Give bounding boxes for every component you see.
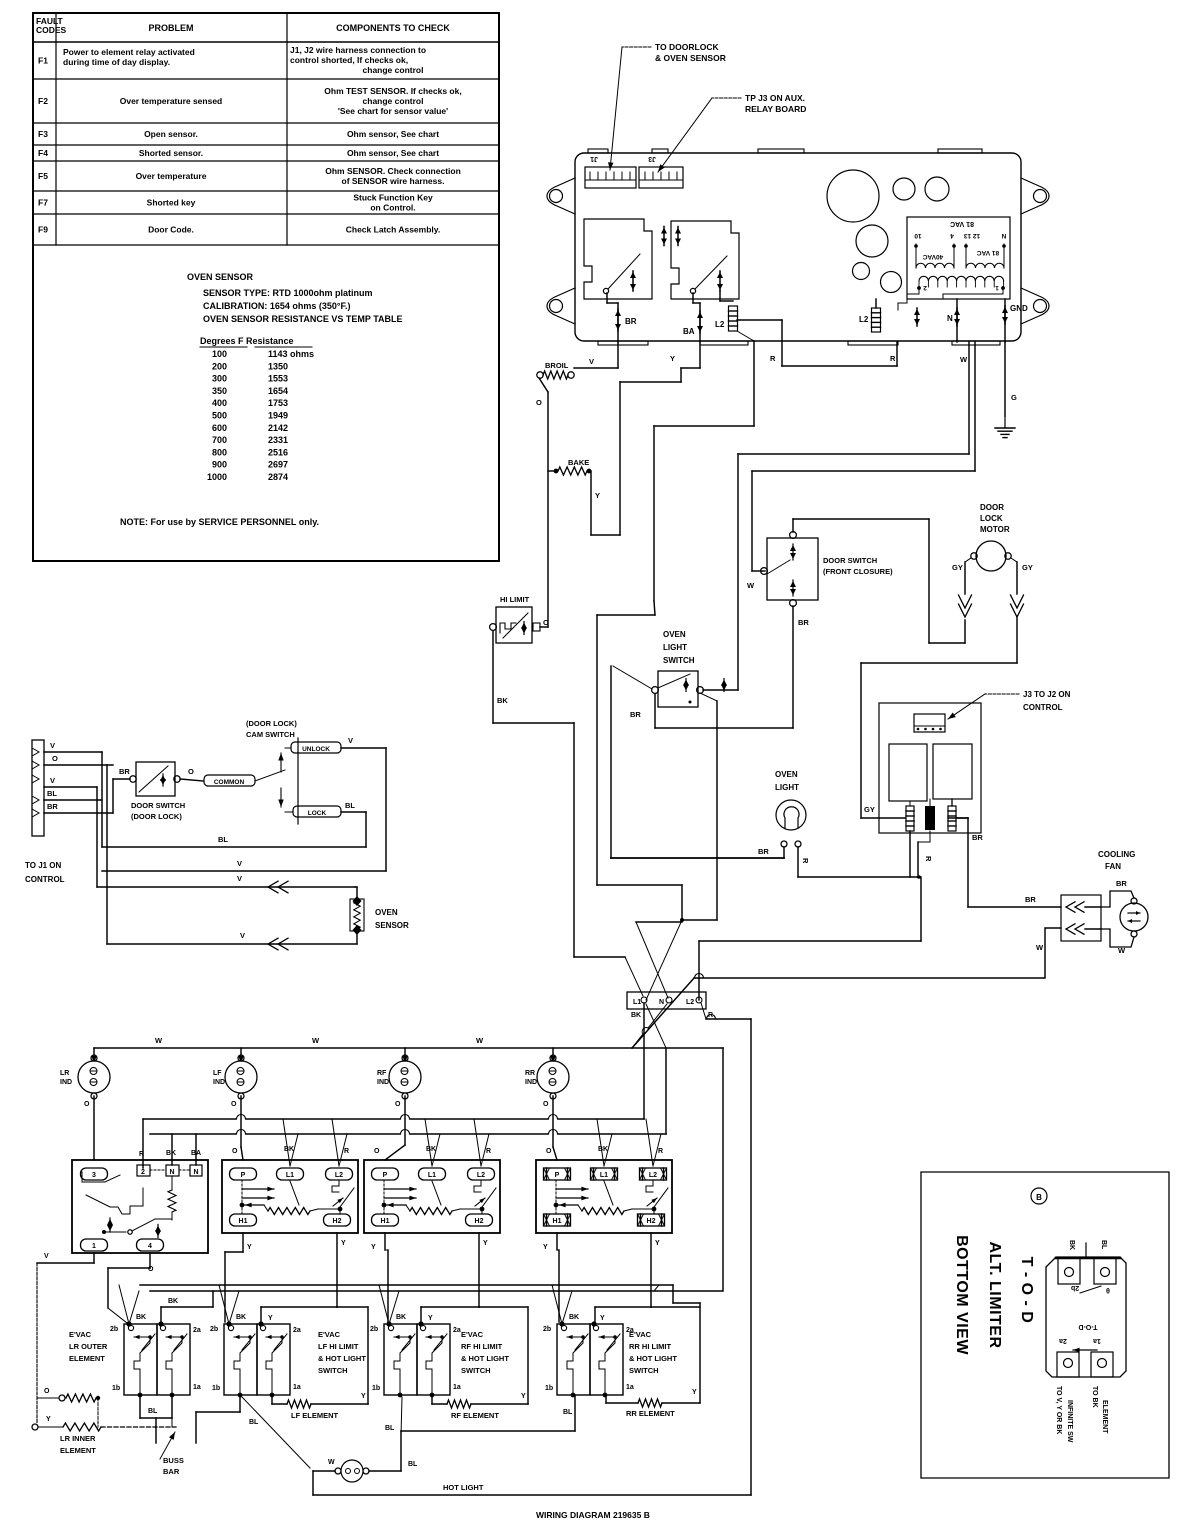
svg-text:G: G <box>1011 393 1017 402</box>
svg-text:V: V <box>348 736 353 745</box>
svg-text:& HOT LIGHT: & HOT LIGHT <box>318 1354 366 1363</box>
cooling fan connector <box>1061 895 1101 941</box>
svg-text:change control: change control <box>363 96 424 106</box>
svg-text:O: O <box>44 1388 50 1395</box>
switch internals: blade <box>482 1188 496 1207</box>
terminal 2b <box>226 1321 231 1326</box>
svg-text:L2: L2 <box>715 320 725 329</box>
2a bracket wires to elements <box>260 1307 262 1324</box>
svg-text:1949: 1949 <box>268 411 288 421</box>
svg-text:BAR: BAR <box>163 1467 180 1476</box>
aux board fuse right <box>951 799 953 806</box>
relay K1 on board <box>584 219 652 299</box>
svg-text:CONTROL: CONTROL <box>1023 703 1063 712</box>
svg-text:900: 900 <box>212 460 227 470</box>
terminal 2a <box>591 1321 596 1326</box>
aux board relay 1 <box>889 744 927 801</box>
svg-text:& HOT LIGHT: & HOT LIGHT <box>461 1354 509 1363</box>
svg-text:BK: BK <box>136 1314 146 1321</box>
svg-text:SWITCH: SWITCH <box>629 1366 659 1375</box>
circled B <box>1031 1188 1047 1204</box>
wire L2 to R drop <box>701 1003 706 1019</box>
svg-text:V: V <box>44 1253 49 1260</box>
cam switch COMMON terminal <box>204 775 255 786</box>
svg-text:H2: H2 <box>647 1218 656 1225</box>
terminal 1b <box>238 1393 243 1398</box>
svg-text:NOTE: For use by SERVICE PERS: NOTE: For use by SERVICE PERSONNEL only. <box>120 517 319 527</box>
control board mounting ear top-right <box>1021 178 1049 214</box>
svg-text:W: W <box>328 1459 335 1466</box>
switch internals: resistor <box>242 1204 264 1206</box>
svg-text:Y: Y <box>655 1240 660 1247</box>
svg-text:10: 10 <box>914 232 922 239</box>
svg-text:BA: BA <box>683 327 695 336</box>
LR outer element resistor <box>59 1395 65 1401</box>
svg-text:GY: GY <box>952 563 963 572</box>
switch cell internals <box>567 1336 583 1338</box>
svg-text:BAKE: BAKE <box>568 458 589 467</box>
svg-text:INFINITE SW: INFINITE SW <box>1066 1400 1073 1443</box>
wire L1 diagonal to rail B riser <box>646 1004 666 1048</box>
connector J1 on board <box>585 167 636 188</box>
HOT LIGHT lamp <box>341 1460 363 1482</box>
LR inner element resistor <box>32 1424 38 1430</box>
cam switch LOCK terminal <box>293 806 341 817</box>
rail B to element switches <box>150 1290 723 1292</box>
svg-text:BK: BK <box>497 696 508 705</box>
svg-text:R: R <box>658 1148 663 1155</box>
svg-text:L1: L1 <box>633 999 641 1006</box>
svg-text:RR: RR <box>525 1070 535 1077</box>
terminal 1a <box>603 1393 608 1398</box>
svg-text:ELEMENT: ELEMENT <box>1101 1400 1108 1434</box>
svg-text:F7: F7 <box>38 198 48 208</box>
switch cell internals <box>134 1336 150 1338</box>
svg-text:W: W <box>960 355 968 364</box>
svg-text:O: O <box>546 1148 552 1155</box>
relay K2 on board <box>671 221 739 299</box>
aux board fuse left <box>909 801 911 806</box>
svg-text:2a: 2a <box>193 1327 201 1334</box>
svg-text:OVEN: OVEN <box>375 908 398 917</box>
1b/1a BL jumpers <box>139 1395 141 1418</box>
LR switch bottom wires <box>93 1253 95 1263</box>
svg-text:GND: GND <box>1010 304 1028 313</box>
switch internals: L1 wiper line <box>290 1181 299 1205</box>
svg-text:Degrees F Resistance: Degrees F Resistance <box>200 336 294 346</box>
svg-text:1b: 1b <box>372 1385 380 1392</box>
terminal 2b <box>559 1321 564 1326</box>
svg-text:O: O <box>232 1148 238 1155</box>
svg-text:F5: F5 <box>38 171 48 181</box>
svg-text:BL: BL <box>249 1419 259 1426</box>
sub-board internal connection <box>898 288 919 310</box>
svg-text:control shorted, If checks ok,: control shorted, If checks ok, <box>290 55 408 65</box>
svg-text:Shorted key: Shorted key <box>147 198 196 208</box>
svg-text:L2: L2 <box>686 999 694 1006</box>
svg-text:Power to element relay activat: Power to element relay activated <box>63 47 195 57</box>
connector TO J1 ON CONTROL <box>32 740 44 836</box>
svg-text:BR: BR <box>1025 895 1036 904</box>
svg-text:300: 300 <box>212 374 227 384</box>
V-drop wires to L2 terminal <box>474 1119 481 1166</box>
svg-text:L2: L2 <box>649 1172 657 1179</box>
svg-text:BK: BK <box>598 1146 608 1153</box>
svg-text:(FRONT CLOSURE): (FRONT CLOSURE) <box>823 567 893 576</box>
svg-text:E'VAC: E'VAC <box>629 1330 652 1339</box>
svg-text:BL: BL <box>1100 1240 1107 1250</box>
svg-text:& OVEN SENSOR: & OVEN SENSOR <box>655 53 726 63</box>
svg-text:RF: RF <box>377 1070 387 1077</box>
svg-text:O: O <box>84 1101 90 1108</box>
svg-text:BK: BK <box>569 1314 579 1321</box>
motor right wire down to aux GY <box>1016 616 1018 663</box>
svg-text:P: P <box>383 1172 388 1179</box>
svg-text:T-O-D: T-O-D <box>1078 1323 1097 1330</box>
svg-text:N: N <box>169 1169 174 1176</box>
wire V from oven sensor bottom <box>107 943 357 945</box>
terminal 1b <box>571 1393 576 1398</box>
OVEN SENSOR resistor <box>353 896 362 906</box>
svg-text:ELEMENT: ELEMENT <box>69 1354 105 1363</box>
svg-text:Check Latch Assembly.: Check Latch Assembly. <box>346 225 440 235</box>
aux board right fuse wire BR to cooling fan <box>951 799 953 806</box>
svg-text:OVEN SENSOR RESISTANCE VS TEMP: OVEN SENSOR RESISTANCE VS TEMP TABLE <box>203 314 403 324</box>
svg-text:Y: Y <box>543 1244 548 1251</box>
svg-text:H2: H2 <box>333 1218 342 1225</box>
svg-text:CODES: CODES <box>36 25 67 35</box>
svg-text:R: R <box>486 1148 491 1155</box>
svg-text:2516: 2516 <box>268 447 288 457</box>
control board outline <box>575 153 1021 341</box>
svg-text:WIRING DIAGRAM 219635 B: WIRING DIAGRAM 219635 B <box>536 1510 650 1520</box>
wire fan W bus down to L2 area <box>698 941 700 1000</box>
V-drop wires to L2 terminal <box>646 1119 653 1166</box>
wire to door switch W <box>974 342 976 471</box>
svg-text:CAM SWITCH: CAM SWITCH <box>246 730 295 739</box>
svg-text:800: 800 <box>212 447 227 457</box>
svg-text:R: R <box>890 354 896 363</box>
svg-text:2142: 2142 <box>268 423 288 433</box>
svg-text:Door Code.: Door Code. <box>148 225 194 235</box>
svg-text:500: 500 <box>212 411 227 421</box>
svg-text:H1: H1 <box>239 1218 248 1225</box>
svg-text:IND: IND <box>213 1079 225 1086</box>
svg-text:V: V <box>240 931 245 940</box>
svg-text:4: 4 <box>950 232 954 239</box>
svg-text:100: 100 <box>212 349 227 359</box>
svg-text:OVEN: OVEN <box>663 630 686 639</box>
svg-text:BR: BR <box>798 618 809 627</box>
svg-text:GY: GY <box>1022 563 1033 572</box>
limiter terminal 2b <box>1058 1258 1080 1284</box>
lamp O wires to switch P terminals <box>93 1096 95 1160</box>
sub-board winding bottom <box>919 276 1004 281</box>
svg-text:L1: L1 <box>600 1172 608 1179</box>
svg-text:Ohm TEST SENSOR. If checks ok,: Ohm TEST SENSOR. If checks ok, <box>324 86 461 96</box>
svg-text:Y: Y <box>428 1315 433 1322</box>
svg-text:J1, J2 wire harness connection: J1, J2 wire harness connection to <box>290 45 426 55</box>
aux board left fuse wire down R <box>909 831 911 877</box>
board terminal BR <box>606 293 608 303</box>
svg-text:SENSOR TYPE: RTD 1000ohm plat: SENSOR TYPE: RTD 1000ohm platinum <box>203 288 373 298</box>
svg-text:Y: Y <box>341 1240 346 1247</box>
svg-text:N: N <box>193 1169 198 1176</box>
svg-text:2b: 2b <box>110 1326 118 1333</box>
fault table row F3 <box>33 144 499 146</box>
svg-text:2874: 2874 <box>268 472 288 482</box>
terminal 2a <box>258 1321 263 1326</box>
svg-text:BR: BR <box>630 710 641 719</box>
switch internals: resistor <box>556 1204 578 1206</box>
fault table row F4 <box>33 160 499 162</box>
thermal fuses between relays <box>663 227 665 246</box>
svg-text:LF ELEMENT: LF ELEMENT <box>291 1411 338 1420</box>
svg-text:LR: LR <box>60 1070 69 1077</box>
aux relay board outline <box>879 703 981 833</box>
svg-text:200: 200 <box>212 361 227 371</box>
wire N diagonal to W bus <box>648 1004 667 1028</box>
LR switch internals <box>81 1172 83 1182</box>
svg-text:1753: 1753 <box>268 398 288 408</box>
cooling fan motor <box>1120 903 1148 931</box>
svg-text:2697: 2697 <box>268 460 288 470</box>
control board mounting ear top-left <box>547 178 575 214</box>
element switch pair box <box>124 1324 157 1395</box>
svg-text:DOOR SWITCH: DOOR SWITCH <box>131 801 185 810</box>
LR switch top wires <box>142 1119 144 1168</box>
svg-text:L2: L2 <box>477 1172 485 1179</box>
switch internals: L2 contact <box>474 1181 481 1192</box>
svg-text:W: W <box>476 1036 484 1045</box>
svg-text:3: 3 <box>92 1172 96 1179</box>
BUSS BAR dashed <box>101 1426 176 1428</box>
svg-text:BK: BK <box>631 1012 641 1019</box>
svg-text:Open sensor.: Open sensor. <box>144 129 198 139</box>
switch internals: L1 wiper line <box>432 1181 441 1205</box>
svg-text:θ: θ <box>1106 1286 1110 1293</box>
svg-text:N: N <box>1001 232 1006 239</box>
svg-text:COOLING: COOLING <box>1098 850 1135 859</box>
svg-text:R: R <box>770 354 776 363</box>
svg-text:RR HI LIMIT: RR HI LIMIT <box>629 1342 671 1351</box>
svg-text:81 VAC: 81 VAC <box>977 249 1000 256</box>
limiter component body <box>1046 1257 1126 1377</box>
V-drop wires to L2 terminal <box>332 1119 339 1166</box>
BL riser to hot light <box>400 1431 402 1471</box>
limiter top stub <box>1085 1243 1087 1257</box>
svg-text:2b: 2b <box>1071 1284 1079 1291</box>
svg-text:400: 400 <box>212 398 227 408</box>
switch internals: wiper column <box>383 1180 385 1214</box>
switch internals: wiper column <box>241 1180 243 1214</box>
wire L1 BK down to rail A <box>643 1003 645 1119</box>
svg-text:ELEMENT: ELEMENT <box>60 1446 96 1455</box>
svg-text:O: O <box>52 754 58 763</box>
svg-text:IND: IND <box>525 1079 537 1086</box>
svg-text:H1: H1 <box>381 1218 390 1225</box>
svg-text:81 VAC: 81 VAC <box>950 220 974 227</box>
svg-text:COMPONENTS TO CHECK: COMPONENTS TO CHECK <box>336 23 450 33</box>
svg-text:Y: Y <box>670 354 675 363</box>
svg-text:E'VAC: E'VAC <box>461 1330 484 1339</box>
fault table row F5 <box>33 190 499 192</box>
rail A to element switches <box>140 1284 673 1286</box>
svg-text:Y: Y <box>600 1315 605 1322</box>
svg-text:L1: L1 <box>286 1172 294 1179</box>
switch cell internals <box>426 1336 442 1338</box>
control board mounting ear bottom-right <box>1021 288 1049 324</box>
svg-text:W: W <box>155 1036 163 1045</box>
H1/H2 wires down from switches <box>242 1233 244 1252</box>
motor wire left GY with arrows <box>965 558 971 562</box>
indicator lamp RF IND <box>389 1061 421 1093</box>
svg-text:R: R <box>924 856 933 862</box>
svg-text:2a: 2a <box>293 1327 301 1334</box>
terminal 2b <box>386 1321 391 1326</box>
fault table row F7 <box>33 213 499 215</box>
wire BAKE to BA, Y <box>589 470 591 472</box>
wire BROIL to BAKE, O <box>539 378 548 392</box>
svg-text:V: V <box>589 357 594 366</box>
svg-text:2a: 2a <box>453 1327 461 1334</box>
svg-text:'See chart for sensor value': 'See chart for sensor value' <box>338 106 448 116</box>
terminal 1a <box>270 1393 275 1398</box>
wire L2 fuse down <box>737 331 754 341</box>
fan wiring top BR <box>1101 891 1134 907</box>
svg-text:BR: BR <box>119 767 130 776</box>
svg-text:ALT. LIMITER: ALT. LIMITER <box>986 1241 1003 1348</box>
svg-text:OVEN: OVEN <box>775 770 798 779</box>
aux board component middle (dark) <box>925 806 935 830</box>
RR ELEMENT <box>638 1399 662 1407</box>
fault table row F2 <box>33 122 499 124</box>
svg-text:LOCK: LOCK <box>980 514 1003 523</box>
svg-text:P: P <box>555 1172 560 1179</box>
hot light wires <box>313 1470 335 1472</box>
svg-text:BOTTOM VIEW: BOTTOM VIEW <box>953 1235 970 1355</box>
svg-text:J3 TO J2 ON: J3 TO J2 ON <box>1023 690 1071 699</box>
svg-text:LR INNER: LR INNER <box>60 1434 96 1443</box>
svg-text:(DOOR LOCK): (DOOR LOCK) <box>131 812 182 821</box>
svg-text:L1: L1 <box>428 1172 436 1179</box>
svg-text:MOTOR: MOTOR <box>980 525 1010 534</box>
terminal 2a <box>418 1321 423 1326</box>
V-drop wires to L1 terminal <box>425 1119 432 1166</box>
svg-text:H2: H2 <box>475 1218 484 1225</box>
svg-text:(DOOR LOCK): (DOOR LOCK) <box>246 719 297 728</box>
svg-text:J1: J1 <box>590 155 598 162</box>
aux board connector J3 <box>914 714 945 732</box>
board terminal diode <box>916 308 918 326</box>
svg-text:2: 2 <box>141 1169 145 1176</box>
svg-text:2b: 2b <box>370 1326 378 1333</box>
svg-text:PROBLEM: PROBLEM <box>149 23 194 33</box>
svg-text:DOOR: DOOR <box>980 503 1004 512</box>
infinite switch RF <box>364 1160 500 1233</box>
connector riser wires <box>101 752 103 847</box>
oven light switch actuator wire <box>610 666 612 858</box>
wire HI LIMIT left BK down <box>492 631 494 723</box>
svg-text:1143 ohms: 1143 ohms <box>268 349 314 359</box>
svg-text:LOCK: LOCK <box>308 810 327 817</box>
svg-text:RR ELEMENT: RR ELEMENT <box>626 1409 675 1418</box>
svg-text:BROIL: BROIL <box>545 361 569 370</box>
board terminal GND <box>1004 299 1006 342</box>
svg-text:Y: Y <box>268 1315 273 1322</box>
svg-text:LR OUTER: LR OUTER <box>69 1342 108 1351</box>
svg-text:F4: F4 <box>38 148 48 158</box>
indicator lamp RR IND <box>537 1061 569 1093</box>
switch internals: L1 wiper line <box>604 1181 613 1205</box>
wire from BK vertical to junction <box>597 884 682 886</box>
DOOR SWITCH (FRONT CLOSURE) <box>767 538 818 600</box>
svg-text:IND: IND <box>60 1079 72 1086</box>
svg-text:BK: BK <box>168 1298 178 1305</box>
svg-text:Ohm sensor, See chart: Ohm sensor, See chart <box>347 148 439 158</box>
wire door switch bottom to oven light switch <box>792 606 794 728</box>
svg-text:O: O <box>188 767 194 776</box>
motor wire right GY with arrows <box>1011 558 1017 562</box>
element switch pair box <box>384 1324 417 1395</box>
svg-text:1: 1 <box>995 284 999 291</box>
switch internals: blade <box>340 1188 354 1207</box>
svg-text:Shorted sensor.: Shorted sensor. <box>139 148 203 158</box>
switch cell internals <box>394 1336 410 1338</box>
svg-text:& HOT LIGHT: & HOT LIGHT <box>629 1354 677 1363</box>
svg-text:O: O <box>543 1101 549 1108</box>
switch cell internals <box>234 1336 250 1338</box>
svg-text:Y: Y <box>483 1240 488 1247</box>
svg-text:Ohm sensor, See chart: Ohm sensor, See chart <box>347 129 439 139</box>
ground symbol <box>1004 416 1006 428</box>
svg-text:TO DOORLOCK: TO DOORLOCK <box>655 42 719 52</box>
svg-text:Y: Y <box>692 1389 697 1396</box>
sub-board winding left <box>916 263 954 268</box>
svg-text:Y: Y <box>361 1393 366 1400</box>
indicator lamp LF IND <box>225 1061 257 1093</box>
W bus right extension <box>632 1047 723 1049</box>
svg-text:BK: BK <box>396 1314 406 1321</box>
svg-text:W: W <box>312 1036 320 1045</box>
svg-text:CONTROL: CONTROL <box>25 875 65 884</box>
svg-text:B: B <box>1036 1193 1042 1202</box>
relay cans (circles) on board <box>827 170 879 222</box>
svg-text:1350: 1350 <box>268 361 288 371</box>
svg-text:1000: 1000 <box>207 472 227 482</box>
svg-text:1a: 1a <box>293 1384 301 1391</box>
svg-text:BR: BR <box>47 802 58 811</box>
svg-text:350: 350 <box>212 386 227 396</box>
svg-text:O: O <box>231 1101 237 1108</box>
svg-text:BR: BR <box>1116 879 1127 888</box>
svg-text:2b: 2b <box>210 1326 218 1333</box>
junction at 682,920 <box>680 918 684 922</box>
wire GND to ground <box>1004 342 1006 416</box>
svg-text:BL: BL <box>345 801 355 810</box>
fan wiring bottom W <box>1101 929 1134 947</box>
infinite switch RR <box>536 1160 672 1233</box>
svg-text:P: P <box>241 1172 246 1179</box>
infinite switch LF <box>222 1160 358 1233</box>
connector J3 on board <box>639 167 683 188</box>
terminal 1a <box>170 1393 175 1398</box>
svg-text:J3: J3 <box>648 155 656 162</box>
svg-text:4: 4 <box>148 1243 152 1250</box>
svg-text:CALIBRATION: 1654 ohms (350°F: CALIBRATION: 1654 ohms (350°F.) <box>203 301 350 311</box>
svg-text:Stuck Function Key: Stuck Function Key <box>353 193 433 203</box>
oven light right wire R <box>797 847 799 877</box>
